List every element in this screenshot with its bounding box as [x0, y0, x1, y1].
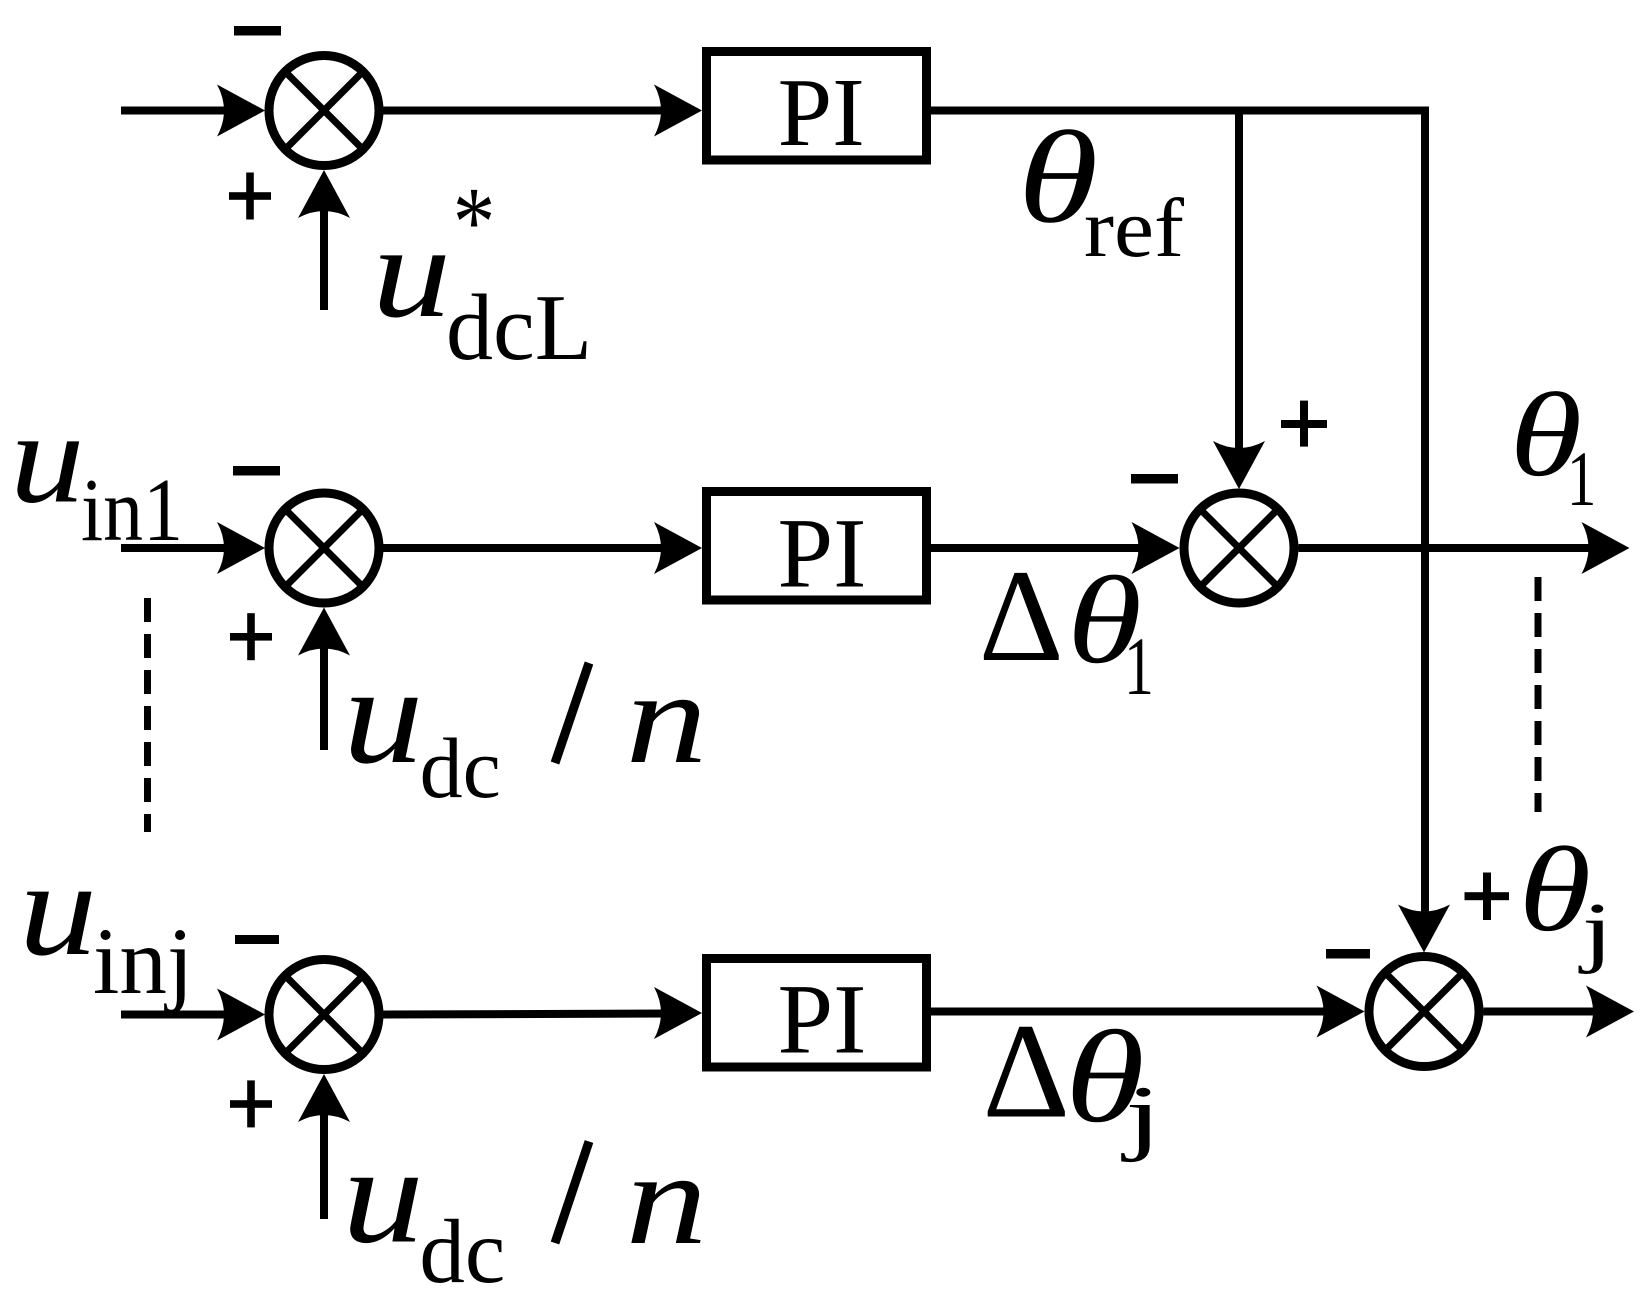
svg-text:Δ: Δ	[979, 542, 1064, 689]
wire PI2 to S3	[931, 544, 1150, 552]
svg-text:PI: PI	[778, 498, 867, 609]
summing junction S5	[269, 960, 379, 1070]
svg-text:n: n	[626, 1127, 708, 1273]
wire S3 output	[1299, 544, 1591, 552]
svg-text:n: n	[626, 646, 708, 792]
summing junction S2	[269, 493, 379, 603]
wire vertical into S1 bottom	[320, 200, 328, 310]
svg-text:Δ: Δ	[983, 997, 1070, 1147]
svg-text:dc: dc	[419, 1201, 505, 1298]
PI block U2	[707, 492, 927, 609]
svg-text:u: u	[372, 198, 451, 345]
arrowhead into S3	[1132, 522, 1180, 574]
minus sign at S5	[235, 935, 279, 944]
svg-text:dc: dc	[420, 720, 501, 816]
plus sign at S3	[1281, 401, 1327, 447]
arrowhead into summing junction S1	[217, 85, 265, 137]
label theta_1	[1510, 369, 1597, 522]
wire PI3 to S4	[931, 1008, 1335, 1016]
arrowhead into PI1	[654, 85, 702, 137]
wire S2 to PI2	[383, 544, 675, 552]
minus sign at S4	[1326, 949, 1370, 959]
svg-text:1: 1	[1567, 436, 1596, 522]
wire top input	[121, 107, 240, 115]
label theta_j output	[1519, 823, 1613, 975]
minus sign at S1	[234, 26, 281, 36]
label u_in1	[10, 386, 183, 560]
svg-text:PI: PI	[778, 964, 867, 1075]
label u_dc/n bottom	[342, 1118, 707, 1302]
plus sign at S2	[230, 613, 272, 660]
svg-text:θ: θ	[1519, 823, 1592, 957]
dashed line left	[144, 598, 151, 832]
wire right vertical down to S4	[1421, 111, 1429, 916]
summing junction S1	[269, 56, 379, 166]
svg-text:ref: ref	[1084, 182, 1184, 275]
label u_dc/n mid	[343, 638, 707, 816]
svg-text:u: u	[19, 832, 97, 983]
svg-text:u: u	[342, 1118, 424, 1272]
plus sign at S4	[1465, 873, 1510, 921]
arrowhead up into S2	[298, 608, 350, 656]
wire S1 to PI1	[383, 107, 675, 115]
PI block U3	[707, 959, 927, 1075]
label theta_ref	[1018, 105, 1184, 275]
arrowhead down into S3	[1213, 441, 1265, 489]
label Delta theta_j	[983, 997, 1162, 1163]
svg-text:u: u	[343, 638, 424, 793]
summing junction S4	[1369, 957, 1479, 1067]
svg-text:inj: inj	[93, 908, 193, 1014]
wire bottom input	[121, 1011, 240, 1019]
wire vertical into S2 bottom	[320, 638, 328, 750]
arrowhead down into S4	[1398, 905, 1450, 953]
wire mid input	[121, 544, 240, 552]
svg-text:PI: PI	[778, 59, 865, 167]
label u_inj	[19, 832, 193, 1014]
label u*_dcL	[372, 167, 592, 380]
arrowhead into S4	[1317, 986, 1365, 1038]
wire S5 to PI3	[383, 1014, 675, 1015]
arrowhead into PI2	[654, 522, 702, 574]
wire S4 output	[1484, 1008, 1596, 1016]
plus sign at S5	[230, 1080, 272, 1127]
minus sign at S2	[233, 466, 280, 476]
summing junction S3	[1184, 493, 1294, 603]
svg-text:1: 1	[1124, 621, 1154, 713]
arrowhead up into S5	[298, 1074, 350, 1122]
arrowhead up into S1	[298, 170, 350, 218]
minus sign at S3	[1131, 474, 1178, 484]
wire vertical into S5 bottom	[320, 1105, 328, 1219]
plus sign at S1	[229, 173, 271, 220]
arrowhead output theta_j	[1586, 986, 1634, 1038]
arrowhead output theta_1	[1582, 522, 1630, 574]
arrowhead into summing junction S2	[217, 522, 265, 574]
wire branch down to S3	[1235, 111, 1243, 451]
svg-text:u: u	[10, 386, 85, 531]
wire PI1 to corner	[931, 107, 1429, 115]
svg-text:j: j	[1578, 886, 1613, 975]
dashed line right	[1535, 577, 1542, 812]
arrowhead into summing junction S5	[217, 989, 265, 1041]
label Delta theta_1	[979, 542, 1154, 712]
svg-text:dcL: dcL	[446, 276, 592, 380]
svg-text:*: *	[453, 167, 496, 278]
svg-text:j: j	[1120, 1068, 1161, 1162]
arrowhead into PI3	[654, 987, 702, 1039]
PI block U1	[707, 52, 927, 168]
